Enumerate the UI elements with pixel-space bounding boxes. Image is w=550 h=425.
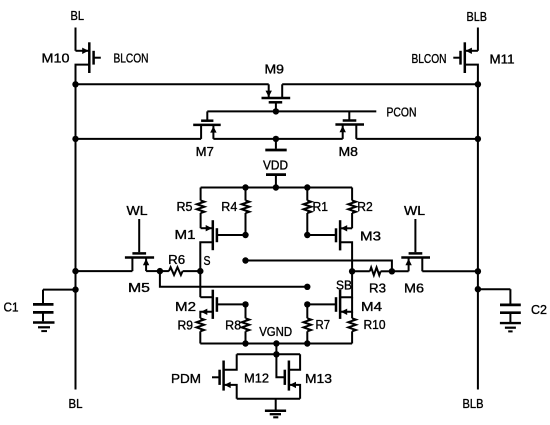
node R7 / VGND junction — [304, 340, 310, 346]
transistor M6 — [414, 219, 416, 252]
node M9 gate / PCON junction — [273, 108, 279, 114]
node pair drain junction — [273, 351, 279, 357]
node R8 / VGND junction — [242, 340, 248, 346]
resistor R3 — [352, 270, 370, 272]
node M1 gate / R4 junction — [242, 232, 248, 238]
node M6 / BLB junction — [475, 268, 481, 274]
resistor R5 — [200, 188, 202, 201]
wire BLB vertical stub — [477, 28, 479, 51]
wire pair top rail — [237, 353, 300, 355]
node M5 / BL junction — [72, 268, 78, 274]
svg-text:WL: WL — [404, 204, 425, 218]
node SB — [349, 268, 355, 274]
svg-text:SB: SB — [336, 279, 352, 293]
node wire A start — [242, 257, 248, 263]
transistor M5 — [138, 219, 140, 252]
wire BL vertical stub — [75, 28, 77, 51]
svg-text:R10: R10 — [364, 318, 386, 332]
wire rail2 right — [356, 138, 478, 140]
wire BLB column — [477, 84, 479, 389]
ground (C1) — [33, 321, 55, 323]
power VDD supply — [266, 173, 286, 176]
transistor M11 — [465, 50, 478, 52]
svg-text:M6: M6 — [404, 282, 424, 296]
wire rail2 middle — [213, 138, 342, 140]
node R3 / M6 junction — [389, 268, 395, 274]
svg-text:M8: M8 — [339, 145, 359, 159]
node VGND center junction — [273, 340, 279, 346]
svg-text:WL: WL — [127, 204, 148, 218]
svg-text:VDD: VDD — [263, 159, 288, 173]
svg-text:M2: M2 — [175, 300, 196, 314]
resistor R9 — [197, 318, 205, 331]
svg-text:BLCON: BLCON — [412, 52, 447, 66]
svg-text:M4: M4 — [361, 300, 382, 314]
wire top rail right segment — [282, 83, 478, 85]
node R1 rail junction — [304, 184, 310, 190]
node C2 / BLB junction — [475, 286, 481, 292]
resistor R4 — [245, 188, 247, 201]
node rail2/BLB junction — [475, 136, 481, 142]
svg-text:M7: M7 — [196, 145, 214, 159]
resistor R2 — [351, 188, 353, 201]
svg-text:R7: R7 — [316, 318, 331, 332]
node S — [197, 268, 203, 274]
svg-text:R1: R1 — [313, 200, 329, 214]
resistor R7 — [306, 304, 308, 318]
svg-text:R4: R4 — [221, 200, 237, 214]
node rail2/BL junction — [72, 136, 78, 142]
power VDD tap — [275, 139, 277, 149]
wire cross-couple A (R4 column to R3) — [246, 261, 392, 272]
resistor R1 — [306, 188, 308, 201]
svg-text:M1: M1 — [175, 228, 196, 242]
node BL/rail junction — [72, 81, 78, 87]
svg-text:M12: M12 — [244, 372, 269, 386]
svg-text:BL: BL — [71, 9, 85, 23]
svg-text:BLB: BLB — [467, 10, 488, 24]
transistor M2 — [200, 296, 213, 298]
svg-text:M5: M5 — [128, 281, 150, 295]
svg-text:S: S — [204, 254, 211, 268]
transistor M3 — [340, 227, 352, 229]
resistor R6 — [160, 270, 169, 272]
svg-text:BL: BL — [69, 397, 83, 411]
wire PCON rail — [207, 110, 376, 112]
svg-text:M13: M13 — [305, 372, 332, 386]
svg-text:PCON: PCON — [387, 106, 417, 120]
transistor M4 — [340, 271, 352, 297]
resistor R8 — [245, 304, 247, 318]
wire rail2 left — [76, 138, 202, 140]
capacitor C2 — [478, 288, 511, 290]
node M4 gate / R7 junction — [304, 301, 310, 307]
wire VGND rail — [200, 343, 352, 345]
transistor M13 — [276, 354, 284, 377]
svg-text:M9: M9 — [265, 63, 285, 77]
svg-text:R2: R2 — [357, 200, 373, 214]
transistor M7 — [206, 111, 208, 120]
node M3 gate / R1 junction — [304, 232, 310, 238]
resistor R10 — [348, 318, 356, 331]
wire top rail left segment — [76, 83, 269, 85]
ground (footer) — [275, 399, 277, 410]
node BLB/rail junction — [475, 81, 481, 87]
node M5 / R6 junction — [157, 268, 163, 274]
node C1 / BL junction — [72, 286, 78, 292]
wire S column — [199, 271, 201, 297]
ground (C2) — [500, 322, 521, 324]
wire cross-couple B (M5 node to R1 column) — [160, 271, 307, 287]
node M2 gate / R8 junction — [242, 301, 248, 307]
svg-text:BLCON: BLCON — [114, 52, 149, 66]
node VDD rail junction — [273, 184, 279, 190]
wire VGND to pair — [275, 344, 277, 355]
svg-text:M3: M3 — [360, 230, 381, 244]
svg-text:C1: C1 — [4, 301, 19, 315]
transistor M10 — [76, 50, 90, 52]
capacitor C1 — [43, 289, 76, 291]
transistor M12 — [224, 354, 237, 369]
wire resistor VDD rail — [201, 187, 353, 189]
wire pair bottom rail — [237, 398, 300, 400]
transistor M8 — [348, 111, 350, 120]
node R4 rail junction — [242, 184, 248, 190]
svg-text:C2: C2 — [531, 303, 547, 317]
transistor M1 — [201, 227, 213, 229]
svg-text:M10: M10 — [42, 51, 70, 65]
transistor M9 — [268, 84, 270, 98]
svg-text:VGND: VGND — [259, 325, 292, 339]
svg-text:R6: R6 — [168, 253, 185, 267]
node wire B end — [304, 284, 310, 290]
svg-text:PDM: PDM — [171, 372, 201, 386]
svg-text:M11: M11 — [490, 53, 515, 67]
svg-text:R5: R5 — [177, 200, 193, 214]
node VDD tap junction — [273, 136, 279, 142]
svg-text:R9: R9 — [178, 319, 194, 333]
svg-text:R8: R8 — [225, 319, 241, 333]
svg-text:R3: R3 — [369, 282, 386, 296]
svg-text:BLB: BLB — [463, 397, 484, 411]
wire BL column — [75, 84, 77, 389]
